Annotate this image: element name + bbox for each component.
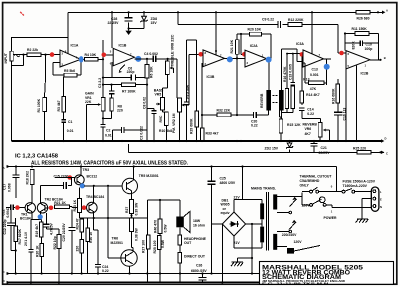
wire: IC2B lower pin columns (346, 62, 357, 142)
wire: VR2 wiper to IC3B (185, 54, 203, 105)
TR4 base red dot (82, 205, 87, 210)
resistor R32 22K feedback (202, 114, 254, 116)
svg-text:R11 150K: R11 150K (352, 27, 368, 31)
svg-text:16 ohm: 16 ohm (193, 223, 205, 227)
svg-text:R29 680K: R29 680K (189, 118, 193, 134)
svg-text:A: A (3, 166, 5, 170)
node red dot (50, 52, 55, 57)
red pen mark (20, 12, 24, 16)
svg-text:R1 100K: R1 100K (37, 98, 41, 112)
svg-text:DIRECT OUT: DIRECT OUT (184, 255, 206, 259)
wire: coil bottoms (256, 111, 281, 120)
svg-text:100p: 100p (365, 47, 373, 51)
ground bus y=141 (12, 140, 382, 142)
svg-text:R26 680: R26 680 (357, 16, 370, 20)
svg-text:R3 4k7: R3 4k7 (57, 100, 61, 111)
svg-text:C2 0.022: C2 0.022 (139, 126, 143, 140)
C7 0.005 column (187, 40, 197, 141)
svg-text:ZD8: ZD8 (151, 17, 158, 21)
svg-text:C5A/5EMHD: C5A/5EMHD (300, 179, 320, 183)
svg-text:N: N (380, 205, 382, 209)
resistor R26 680 (356, 10, 370, 14)
svg-text:IC2B: IC2B (361, 72, 369, 76)
resistor R21b 1K (54, 205, 69, 209)
svg-text:E.G. 11-11-86 TKS M.N.: E.G. 11-11-86 TKS M.N. (262, 282, 331, 285)
resistor R11 150K feedback (345, 34, 379, 60)
svg-text:R16 470K: R16 470K (283, 66, 287, 82)
capacitor C4 0.002 (153, 55, 156, 62)
svg-text:ALL RESISTORS 1/4W, CAPACITORS: ALL RESISTORS 1/4W, CAPACITORS uF 50V AX… (31, 161, 189, 167)
svg-text:R25 220: R25 220 (353, 147, 366, 151)
svg-text:0.22: 0.22 (251, 124, 258, 128)
svg-text:IC1B: IC1B (119, 44, 127, 48)
TR tail blue dot (38, 214, 43, 219)
resistor R15 12K (279, 119, 283, 133)
capacitor C25 4700/25V (207, 181, 215, 184)
capacitor C2 0.01 (100, 125, 105, 128)
reverb pot VR6 4k7 (318, 123, 322, 137)
svg-text:IC3B: IC3B (207, 75, 215, 79)
transistor TR2 (37, 203, 47, 213)
resistor R22 (57, 235, 61, 249)
capacitor C13b 4.7/25V (45, 213, 47, 224)
svg-text:R13: R13 (303, 77, 309, 81)
wire: recovery bottoms (281, 108, 293, 119)
svg-text:2V1 4.1V: 2V1 4.1V (24, 231, 28, 246)
svg-text:T1600mA-220V: T1600mA-220V (343, 184, 368, 188)
gain pot column wire (103, 40, 113, 97)
resistor R25 220 (357, 151, 371, 155)
svg-text:D: D (385, 137, 387, 141)
svg-text:4.7/25V: 4.7/25V (50, 222, 54, 235)
pot VR1 GAIN 22K (101, 97, 105, 111)
ground symbol below C28 (128, 27, 130, 29)
svg-text:BC184: BC184 (20, 216, 31, 220)
svg-text:6800 /25V: 6800 /25V (191, 269, 207, 273)
svg-text:C12: C12 (2, 209, 6, 215)
svg-text:REVERB: REVERB (303, 123, 318, 127)
bass pot VR5 (161, 97, 165, 110)
svg-text:C: C (3, 270, 5, 274)
capacitor C1 0.01 (61, 120, 66, 123)
svg-text:220: 220 (75, 246, 79, 252)
transistor TR5 MJ3001 (122, 178, 137, 193)
op-amp IC2B (346, 51, 370, 69)
svg-text:0.39 3W: 0.39 3W (134, 202, 138, 216)
svg-text:IC 1,2,3 CA1458: IC 1,2,3 CA1458 (15, 153, 58, 159)
svg-text:OUT: OUT (184, 241, 192, 245)
svg-text:C1: C1 (68, 120, 72, 124)
reverb pickup coil (black bar) (279, 90, 284, 111)
svg-text:4800 /25V: 4800 /25V (220, 181, 236, 185)
reverb drive coil (black bar) (266, 90, 271, 111)
transistor TR3 BC212 (74, 175, 84, 185)
junction dots on ground bus (43, 140, 45, 142)
IC3A output blue dot (324, 64, 330, 70)
svg-text:22/25V: 22/25V (319, 151, 331, 155)
svg-text:22K: 22K (85, 100, 92, 104)
wiper arrow into feedback (119, 65, 125, 71)
wire: bias row y=218 (79, 186, 148, 265)
svg-text:C17: C17 (2, 184, 6, 190)
wire: IC2A out to reverb coil (267, 34, 272, 90)
resistor R3 4k7 (62, 97, 66, 113)
svg-text:0.5W: 0.5W (163, 224, 167, 233)
neon lamp (319, 197, 325, 203)
TR1 base red dot (15, 205, 20, 210)
resistor R9 (165, 112, 169, 126)
svg-text:IC2A: IC2A (250, 44, 258, 48)
resistor R26b 220 (80, 240, 84, 254)
junction node (44, 54, 46, 56)
svg-text:IC3A: IC3A (296, 42, 304, 46)
resistor R17 820K (14, 226, 18, 242)
resistor R21 10K vertical (235, 40, 239, 55)
svg-text:0.5W: 0.5W (161, 239, 165, 248)
mains connector (371, 187, 379, 211)
C-rail y=152.3 (129, 144, 385, 153)
transistor TR6 MJ2501 (121, 250, 137, 266)
svg-text:R24 47: R24 47 (75, 218, 79, 229)
svg-text:R16 680K: R16 680K (331, 88, 335, 104)
IC2A input red dot (242, 52, 247, 57)
svg-text:0.001: 0.001 (310, 73, 319, 77)
TR3 emitter blue dot (80, 183, 85, 188)
resistor R8 220 (110, 98, 113, 111)
svg-text:0.068: 0.068 (7, 183, 11, 192)
resistor R40 470 0.5W (158, 219, 162, 234)
headphone jack (179, 227, 181, 235)
wire: R2 to IC1A (41, 54, 60, 56)
wire: IC1A out (81, 58, 85, 60)
svg-text:0.38 3W: 0.38 3W (134, 227, 138, 241)
output node blue dot (79, 56, 84, 62)
svg-text:R33 4k7: R33 4k7 (206, 132, 219, 136)
svg-text:R21 1K: R21 1K (54, 201, 66, 205)
resistor R28 1K (146, 235, 150, 249)
wire: TR3 to TR5 base rail (79, 186, 126, 199)
resistor R4 10K (85, 58, 99, 62)
op-amp IC2A (245, 50, 267, 67)
svg-text:R32 22K: R32 22K (217, 109, 231, 113)
svg-text:FUSE 1500mA-120V: FUSE 1500mA-120V (343, 180, 376, 184)
resistor R29b 0.39 3W (130, 218, 134, 232)
IC1B output blue dot (135, 56, 141, 62)
wire: IC1B out to C4 (135, 58, 153, 60)
feedback resistor R5 5k6 (53, 61, 81, 75)
resistor R2 22k (27, 53, 41, 57)
svg-text:0.22: 0.22 (102, 269, 109, 273)
svg-text:L: L (380, 190, 382, 194)
transistor TR4 (87, 202, 98, 213)
capacitor C14 0.22 (299, 108, 305, 111)
svg-text:R20 1K: R20 1K (35, 245, 39, 257)
svg-text:C13: C13 (312, 67, 318, 71)
svg-text:C2: C2 (106, 129, 110, 133)
svg-text:820K: 820K (352, 41, 356, 50)
svg-text:TR4 BC184: TR4 BC184 (86, 195, 104, 199)
IC3A input red dot (300, 52, 305, 57)
resistor R24 47 (80, 219, 84, 232)
svg-text:47K: 47K (310, 87, 317, 91)
terminal A arrow right end (377, 11, 379, 13)
feedback pin6 loop with C6 220p (103, 62, 147, 78)
emitter join to tail (31, 212, 41, 222)
svg-text:R15 12K: R15 12K (287, 123, 301, 127)
IC1B input red dot (102, 53, 107, 58)
feedback resistor R13 47K (303, 63, 327, 85)
resistor R19 4k7 (40, 222, 43, 237)
IC2B input red dot (339, 51, 344, 56)
transistor TR1 (25, 203, 35, 213)
zener ZD2 15V (289, 141, 291, 152)
resistor R16b 680K column (336, 84, 340, 103)
svg-text:R30 10: R30 10 (89, 232, 93, 243)
wire: +V bus y=12.3 (68, 12, 382, 55)
svg-text:R23 1K: R23 1K (73, 199, 77, 211)
svg-text:0.01: 0.01 (105, 133, 112, 137)
bridge rectifier DB1 (222, 212, 245, 236)
svg-text:INPUT: INPUT (4, 52, 8, 63)
resistor R1 100K (45, 55, 46, 98)
capacitor C10 100p (360, 40, 362, 45)
junction dots on +V bus (111, 11, 113, 13)
resistor R25b 100 0.5W (157, 236, 161, 250)
svg-text:120V: 120V (294, 240, 303, 244)
op-amp IC3A (303, 50, 324, 67)
capacitor small (28, 250, 33, 252)
capacitor C20 0.22 (254, 112, 257, 118)
svg-text:R25 100: R25 100 (153, 240, 157, 253)
TR2 emitter red dot (49, 206, 54, 211)
svg-text:R12 220K: R12 220K (288, 18, 304, 22)
svg-text:21V: 21V (234, 241, 241, 245)
capacitor C2 0.022 (122, 127, 125, 133)
capacitor C9 0.22 (278, 21, 281, 28)
svg-text:A: A (386, 9, 388, 13)
svg-text:0.0047: 0.0047 (6, 207, 10, 218)
svg-text:C3 2.2: C3 2.2 (98, 78, 102, 88)
svg-text:R6 10K: R6 10K (150, 66, 154, 78)
direct out jack (178, 253, 182, 264)
wire: bridge connections (212, 199, 263, 273)
resistor R30 (86, 228, 89, 242)
resistor R20 1K (40, 243, 44, 256)
svg-text:VR5: VR5 (155, 93, 162, 97)
resistor R18 2K2 (30, 170, 34, 185)
svg-text:4K7: 4K7 (305, 132, 311, 136)
svg-text:VR6: VR6 (305, 127, 312, 131)
wire: IC3A output (302, 57, 331, 105)
IC2A output blue dot (266, 57, 272, 63)
resistor R29 680K column (196, 40, 198, 141)
capacitor C21 22/25V (313, 141, 315, 152)
core dashes (273, 96, 278, 103)
wire: jack to R2 and top bias wire (12, 38, 69, 141)
chassis ground (bridge) (231, 258, 243, 266)
svg-text:D: D (3, 279, 5, 283)
svg-text:TR5 MJ3001: TR5 MJ3001 (139, 174, 159, 178)
svg-text:R2 22k: R2 22k (27, 48, 38, 52)
svg-text:equiv: equiv (221, 211, 230, 215)
op-amp IC1A (60, 50, 81, 67)
svg-text:C21: C21 (321, 146, 327, 150)
svg-text:R18 2K2: R18 2K2 (26, 171, 30, 185)
loudspeaker (176, 217, 184, 228)
svg-text:R20 10K: R20 10K (248, 28, 262, 32)
svg-text:R27 100: R27 100 (142, 240, 146, 253)
svg-text:R7 100K: R7 100K (122, 90, 136, 94)
resistor R12 220K (288, 23, 302, 27)
svg-text:C25: C25 (220, 177, 226, 181)
svg-text:POWER: POWER (324, 216, 338, 220)
wire: IC2B output to B terminal (370, 59, 380, 61)
wire: top rail into R12/C9 chain y=24.5 (178, 25, 346, 54)
svg-text:C20 22/25V: C20 22/25V (62, 223, 66, 242)
svg-text:1: 1 (331, 210, 333, 214)
resistor R23 1K (78, 199, 82, 213)
earth from E pin (356, 199, 372, 223)
capacitor C19 0.005 vertical (291, 83, 295, 86)
svg-text:0.01: 0.01 (67, 129, 74, 133)
svg-text:7: 7 (319, 53, 321, 57)
treble pot VR8 (165, 61, 169, 75)
resistor R20 10K feedback (237, 34, 271, 54)
svg-text:220: 220 (117, 109, 123, 113)
svg-text:0.22: 0.22 (307, 112, 314, 116)
svg-text:R5 5k6: R5 5k6 (64, 69, 75, 73)
svg-text:0: 0 (331, 185, 333, 189)
svg-text:THERMAL CUTOUT: THERMAL CUTOUT (300, 175, 333, 179)
svg-text:PM. VR2 1M: PM. VR2 1M (172, 113, 176, 133)
resistor R33 4k7 (200, 128, 204, 141)
svg-text:TR3: TR3 (83, 168, 90, 172)
svg-text:22/25V: 22/25V (108, 21, 120, 25)
mains switch pole1 (310, 190, 313, 193)
svg-text:MJ2501: MJ2501 (111, 241, 124, 245)
svg-text:R10 6k8: R10 6k8 (159, 129, 172, 133)
svg-text:C28: C28 (111, 17, 117, 21)
svg-text:R4 10K: R4 10K (85, 53, 97, 57)
svg-text:C4 0.002: C4 0.002 (144, 52, 158, 56)
svg-text:5: 5 (110, 50, 112, 54)
svg-text:21V: 21V (234, 196, 241, 200)
svg-text:C8 0.02: C8 0.02 (143, 97, 147, 109)
svg-text:C14: C14 (307, 107, 313, 111)
svg-text:REVERB: REVERB (260, 93, 264, 108)
svg-text:MAINS TRANS.: MAINS TRANS. (251, 187, 276, 191)
wire: C4 to treble (156, 59, 177, 63)
primary taps + selector (277, 193, 302, 247)
svg-text:R9C: R9C (159, 115, 163, 122)
volume pot VR2 1M (176, 59, 178, 98)
IC3B input red dot (199, 52, 204, 57)
svg-text:R27: R27 (125, 207, 129, 213)
resistor R7 100K (103, 84, 147, 86)
svg-text:BC212: BC212 (87, 175, 98, 179)
svg-text:ONLY: ONLY (300, 183, 310, 187)
svg-text:220p: 220p (127, 70, 135, 74)
op-amp IC1B (113, 48, 134, 65)
capacitor C16 (334, 112, 343, 115)
svg-text:R40 470: R40 470 (154, 220, 158, 233)
resistor R16 470K vertical (285, 88, 288, 108)
op-amp IC3B (203, 50, 225, 67)
svg-text:C19 0.005: C19 0.005 (289, 64, 293, 80)
svg-text:R22 10p: R22 10p (53, 236, 57, 249)
svg-text:E: E (380, 198, 382, 202)
output loop wires (147, 200, 180, 282)
svg-text:B: B (384, 56, 386, 60)
svg-text:C26: C26 (196, 263, 202, 267)
wire: bridge minus column (221, 224, 223, 282)
resistor R27 0.39 3W (130, 200, 134, 214)
wire: A-rail feed to C25 (212, 167, 243, 274)
svg-text:R17 820K: R17 820K (18, 229, 22, 245)
zener ZD8 15V (129, 12, 144, 28)
svg-text:C12 220p: C12 220p (3, 219, 7, 234)
capacitor C28 22/25V (128, 12, 130, 28)
svg-text:TREBLE VR8 22C: TREBLE VR8 22C (169, 34, 174, 67)
wire: pickup to IC3A (281, 49, 303, 90)
svg-text:R14 4K7: R14 4K7 (306, 93, 320, 97)
svg-text:15V: 15V (151, 21, 158, 25)
svg-text:ZD2 15V: ZD2 15V (265, 146, 279, 150)
mains switch pole2 (310, 204, 313, 207)
IC3B output blue dot (227, 56, 233, 62)
thermal cutout mount (287, 248, 294, 254)
svg-text:220/240V: 220/240V (282, 233, 297, 237)
svg-text:C9 0.22: C9 0.22 (262, 18, 274, 22)
svg-text:R19 4k7: R19 4k7 (35, 224, 39, 237)
svg-text:1: 1 (365, 63, 367, 67)
svg-text:C: C (386, 151, 388, 155)
capacitor C24 0.22 (95, 265, 101, 268)
wire: IC3B output (202, 58, 245, 128)
svg-text:R21 10K: R21 10K (230, 39, 234, 53)
svg-text:IC1A: IC1A (71, 43, 79, 47)
svg-text:120V: 120V (302, 204, 311, 208)
resistor R6 10K vertical (145, 65, 149, 79)
